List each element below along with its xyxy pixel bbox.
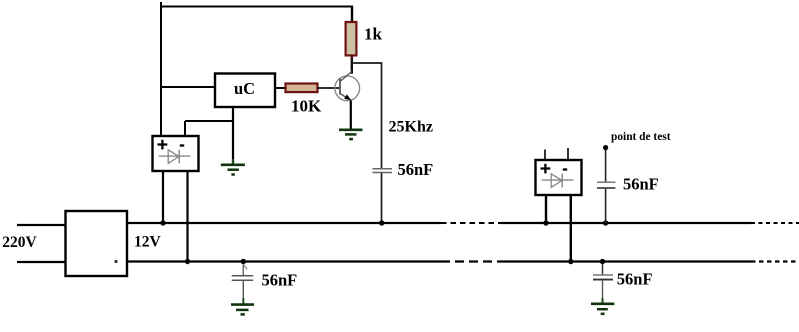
svg-text:1k: 1k bbox=[364, 25, 383, 44]
svg-text:56nF: 56nF bbox=[617, 270, 653, 289]
svg-text:10K: 10K bbox=[291, 97, 322, 116]
svg-text:56nF: 56nF bbox=[262, 271, 298, 290]
svg-text:point de test: point de test bbox=[611, 131, 671, 143]
svg-text:uC: uC bbox=[234, 79, 255, 98]
svg-text:12V: 12V bbox=[134, 234, 162, 251]
svg-text:220V: 220V bbox=[2, 234, 37, 251]
svg-text:56nF: 56nF bbox=[398, 160, 434, 179]
svg-text:56nF: 56nF bbox=[623, 175, 659, 194]
svg-text:25Khz: 25Khz bbox=[389, 119, 433, 136]
